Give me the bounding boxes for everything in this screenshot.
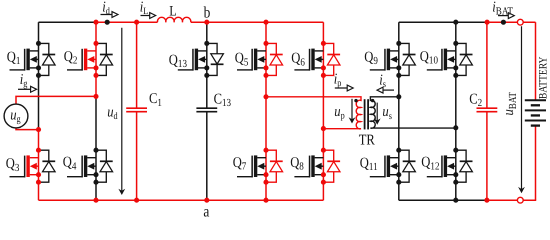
body diode of Q8	[323, 150, 340, 182]
wire Q13 C13 branch upper (black)	[206, 22, 208, 107]
wire leg Q10 Q12 (black)	[455, 22, 457, 200]
arrow ud	[118, 28, 125, 195]
arrow us	[374, 103, 381, 125]
wire bottom rail left (red)	[39, 199, 324, 201]
body diode of Q11	[399, 150, 416, 182]
wire leg Q3 lower (red)	[38, 130, 40, 201]
capacitor C2	[477, 108, 498, 112]
arrow is	[377, 87, 394, 93]
body diode of Q6	[323, 43, 340, 75]
node C1 top	[134, 20, 139, 25]
capacitor C1	[126, 108, 147, 112]
wire top rail battery (red)	[487, 21, 535, 23]
wire bottom rail right bridge (black)	[399, 199, 487, 201]
junction dots at Q13	[204, 41, 209, 78]
wire leg Q6 Q8 (red)	[322, 22, 324, 200]
svg-text:BATTERY: BATTERY	[538, 57, 550, 100]
node Q2 drain on top rail	[93, 20, 98, 25]
wire battery top (red)	[535, 22, 537, 100]
node iBAT marker on top rail	[501, 20, 506, 25]
junction dots at Q9	[396, 41, 401, 78]
transformer polarity dot secondary	[371, 99, 374, 102]
wire top rail left (black)	[39, 21, 97, 23]
body diode of Q7	[266, 150, 283, 182]
transistor Q7	[237, 155, 266, 177]
arrow iBAT	[498, 13, 514, 19]
node C1 bottom	[134, 198, 139, 203]
inductor L	[157, 17, 190, 22]
transistor Q11	[370, 155, 399, 177]
junction dots at Q6	[321, 41, 326, 78]
node ug to Q1 leg	[36, 127, 41, 132]
transistor Q8	[294, 155, 323, 177]
wire ug bottom to Q1 leg (red)	[16, 128, 39, 130]
arrow id	[101, 12, 119, 18]
source ug circle	[4, 104, 28, 128]
wire leg Q1 upper (black)	[38, 22, 40, 129]
node primary bottom on Q6 leg	[321, 126, 326, 131]
body diode of Q2	[96, 43, 113, 75]
node Q4 source on bottom rail	[93, 198, 98, 203]
body diode of Q13	[207, 43, 224, 75]
svg-text:a: a	[203, 204, 209, 221]
wire top rail right of L (red)	[191, 21, 324, 23]
junction dots at Q2	[93, 41, 98, 78]
transistor Q1	[10, 49, 39, 71]
transistor Q4	[67, 155, 96, 177]
wire C2 branch upper (red)	[486, 22, 488, 107]
arrow iL	[141, 13, 156, 19]
arrow up	[349, 99, 356, 124]
node primary top on Q5 leg	[263, 94, 268, 99]
wire battery bottom (red)	[535, 126, 537, 201]
junction dots at Q7	[263, 148, 268, 185]
wire top rail mid (red)	[96, 21, 158, 23]
wire leg Q5 Q7 (red)	[265, 22, 267, 200]
transistor Q9	[370, 49, 399, 71]
transformer core	[365, 99, 369, 129]
body diode of Q9	[399, 43, 416, 75]
transistor Q6	[294, 49, 323, 71]
wire C2 branch lower (red)	[486, 112, 488, 200]
arrow uBAT	[518, 26, 525, 193]
transistor Q5	[237, 49, 266, 71]
arrow ig	[18, 86, 37, 92]
node secondary top on Q9 leg	[396, 94, 401, 99]
arrow ip	[335, 85, 353, 91]
body diode of Q3	[39, 150, 56, 182]
transformer primary winding and wires	[266, 97, 361, 129]
node Q7 source on bottom rail	[263, 198, 268, 203]
node ug to Q2 leg	[93, 94, 98, 99]
transistor Q2	[67, 49, 96, 71]
body diode of Q10	[456, 43, 473, 75]
node b dot	[204, 20, 209, 25]
transformer secondary winding and wires	[370, 97, 455, 128]
transformer polarity dot primary	[354, 99, 357, 102]
terminal circle bottom	[517, 197, 523, 203]
node id marker on top rail	[105, 20, 110, 25]
junction dots at Q4	[93, 148, 98, 185]
wire top rail right bridge (black)	[399, 21, 487, 23]
svg-text:L: L	[169, 4, 176, 20]
wire C1 branch lower (red)	[136, 112, 138, 200]
junction dots at Q11	[396, 148, 401, 185]
capacitor C13	[196, 108, 217, 112]
transistor Q13	[178, 49, 207, 71]
body diode of Q5	[266, 43, 283, 75]
node a dot	[204, 198, 209, 203]
transistor Q3	[10, 155, 39, 177]
transistor Q10	[427, 49, 456, 71]
wire C1 branch upper (red)	[136, 22, 138, 107]
junction dots at Q5	[263, 41, 268, 78]
junction dots at Q1	[36, 41, 41, 78]
junction dots at Q8	[321, 148, 326, 185]
wire leg Q4 lower (black)	[95, 96, 97, 200]
node Q5 drain on top rail	[263, 20, 268, 25]
battery cells	[525, 100, 546, 125]
body diode of Q1	[39, 43, 56, 75]
wire leg Q9 Q11 (black)	[398, 22, 400, 200]
wire leg Q2 upper (red)	[95, 22, 97, 96]
body diode of Q12	[456, 150, 473, 182]
junction dots at Q10	[453, 41, 458, 78]
wire Q13 C13 branch lower (black)	[206, 112, 208, 200]
junction dots at Q3	[36, 148, 41, 185]
node secondary bottom on Q10 leg	[453, 125, 458, 130]
node C2 bottom	[484, 198, 489, 203]
transistor Q12	[427, 155, 456, 177]
wire ug top to Q2 leg (red)	[16, 96, 96, 104]
svg-text:b: b	[204, 4, 211, 21]
terminal circle top	[517, 19, 523, 25]
body diode of Q4	[96, 150, 113, 182]
junction dots at Q12	[453, 148, 458, 185]
node Q12 source on bottom rail	[453, 198, 458, 203]
node Q10 drain on top rail	[453, 20, 458, 25]
node C2 top	[485, 20, 490, 25]
wire bottom rail battery (red)	[487, 199, 536, 201]
svg-text:TR: TR	[359, 132, 375, 148]
